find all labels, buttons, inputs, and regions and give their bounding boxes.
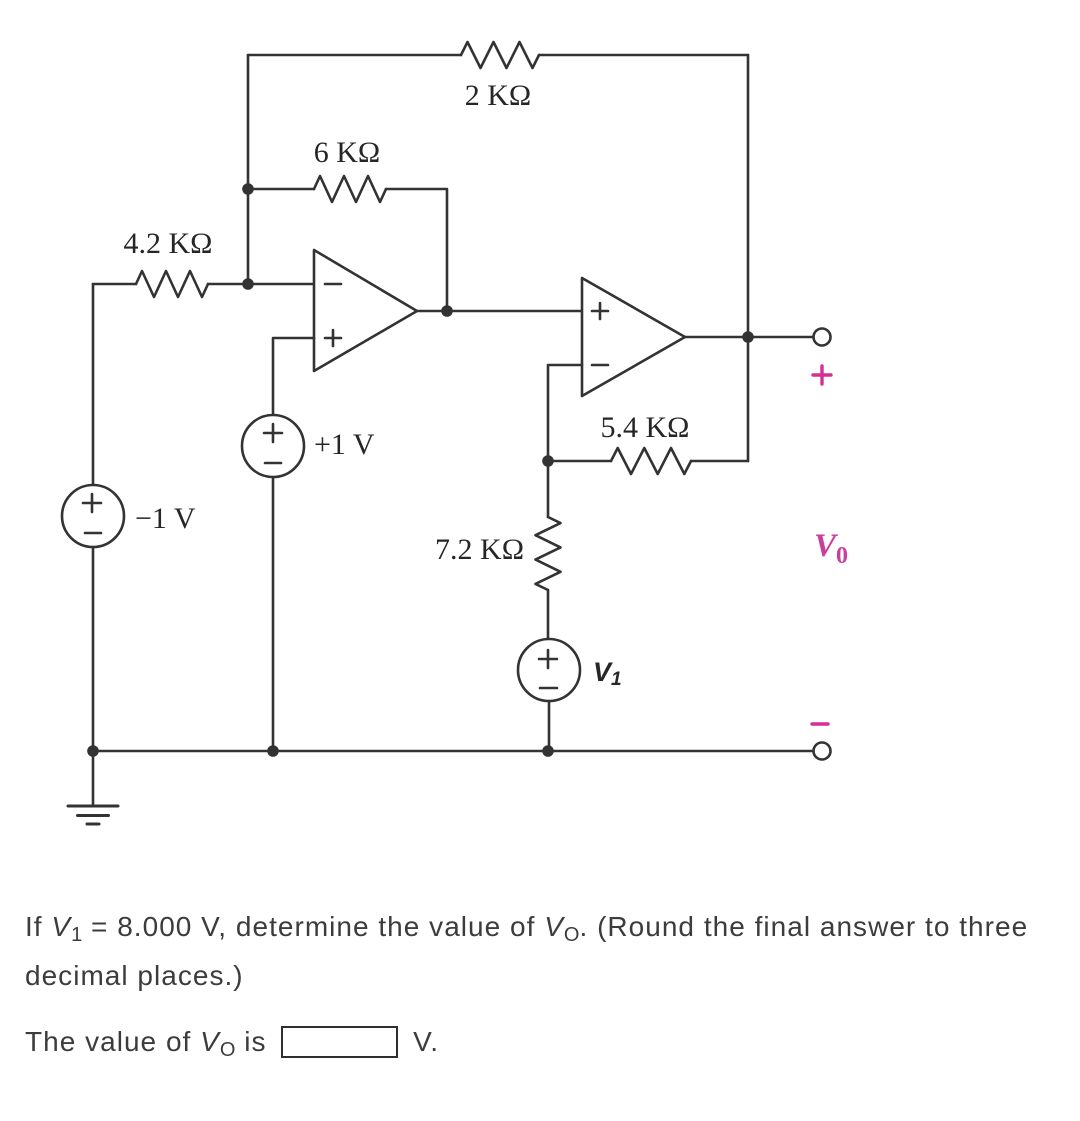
wire -1V bottom lead: [92, 547, 95, 751]
node junction inverting input: [242, 278, 254, 290]
source V1 plus sign: [539, 650, 557, 668]
label minus terminal magenta: [812, 722, 828, 725]
wire 6K right lead and vertical to op1 output: [386, 189, 447, 311]
wire right vertical from top rail to output node: [747, 55, 750, 337]
wire left vertical from 4.2K to -1V source: [92, 284, 95, 485]
node junction 6K-left: [242, 183, 254, 195]
resistor R 2K zigzag: [461, 42, 539, 68]
svg-text:2 KΩ: 2 KΩ: [465, 79, 531, 112]
wire 4.2K right lead to op1 inverting input: [208, 283, 314, 286]
node junction op1 output: [441, 305, 453, 317]
node junction bottom +1V: [267, 745, 279, 757]
wire top rail right of 2K: [539, 54, 748, 57]
svg-text:5.4 KΩ: 5.4 KΩ: [601, 411, 690, 444]
svg-text:4.2 KΩ: 4.2 KΩ: [124, 227, 213, 260]
wire 7.2K top lead: [547, 461, 550, 517]
resistor R 4.2K zigzag: [136, 271, 208, 297]
terminal output -: [814, 743, 831, 760]
op-amp U1 triangle: [314, 250, 417, 371]
source -1V circle: [62, 485, 124, 547]
resistor R 7.2K zigzag: [536, 517, 561, 590]
svg-text:6 KΩ: 6 KΩ: [314, 136, 380, 169]
wire op2 inverting input lead down to 5.4K node: [548, 365, 582, 461]
op-amp U2 minus sign: [592, 364, 608, 367]
node junction op2 output: [742, 331, 754, 343]
resistor R 6K zigzag: [314, 176, 386, 202]
op-amp U2 plus sign: [592, 303, 608, 319]
svg-text:−1 V: −1 V: [135, 502, 196, 535]
svg-text:V1: V1: [593, 657, 622, 690]
wire top rail left of 2K: [248, 54, 461, 57]
label plus terminal magenta: [813, 366, 831, 384]
wire 4.2K left lead: [93, 283, 136, 286]
wire 6K left lead: [248, 188, 314, 191]
node junction bottom-left ground: [87, 745, 99, 757]
svg-text:7.2 KΩ: 7.2 KΩ: [435, 533, 524, 566]
node junction bottom V1: [542, 745, 554, 757]
wire op1 output to op2 noninverting input: [417, 310, 582, 313]
node junction 5.4K / 7.2K: [542, 455, 554, 467]
ground: [92, 751, 95, 806]
wire 7.2K bottom lead to V1 source: [547, 590, 550, 639]
wire +1V bottom lead to ground rail: [272, 477, 275, 751]
source +1V plus sign: [264, 424, 282, 442]
source V1 minus sign: [540, 687, 557, 690]
terminal output +: [814, 329, 831, 346]
op-amp U1 minus sign: [325, 283, 341, 286]
svg-text:V0: V0: [814, 528, 848, 569]
wire bottom rail: [93, 750, 813, 753]
svg-text:+1 V: +1 V: [314, 428, 375, 461]
source +1V minus sign: [265, 462, 281, 465]
source +1V circle: [242, 415, 304, 477]
source -1V plus sign: [83, 494, 101, 512]
wire 5.4K right lead: [691, 460, 748, 463]
wire op2 output to terminal: [685, 336, 813, 339]
source V1 circle: [518, 639, 580, 701]
op-amp U2 triangle: [582, 278, 685, 396]
wire op1 noninverting input lead: [273, 338, 314, 415]
resistor R 5.4K zigzag: [611, 448, 691, 474]
wire 5.4K left lead: [548, 460, 611, 463]
wire V1 bottom lead: [548, 701, 551, 751]
wire left vertical from top rail down to inverting node: [247, 55, 250, 284]
wire feedback vertical from output node to 5.4K: [747, 337, 750, 461]
op-amp U1 plus sign: [325, 330, 341, 346]
source -1V minus sign: [85, 532, 101, 535]
